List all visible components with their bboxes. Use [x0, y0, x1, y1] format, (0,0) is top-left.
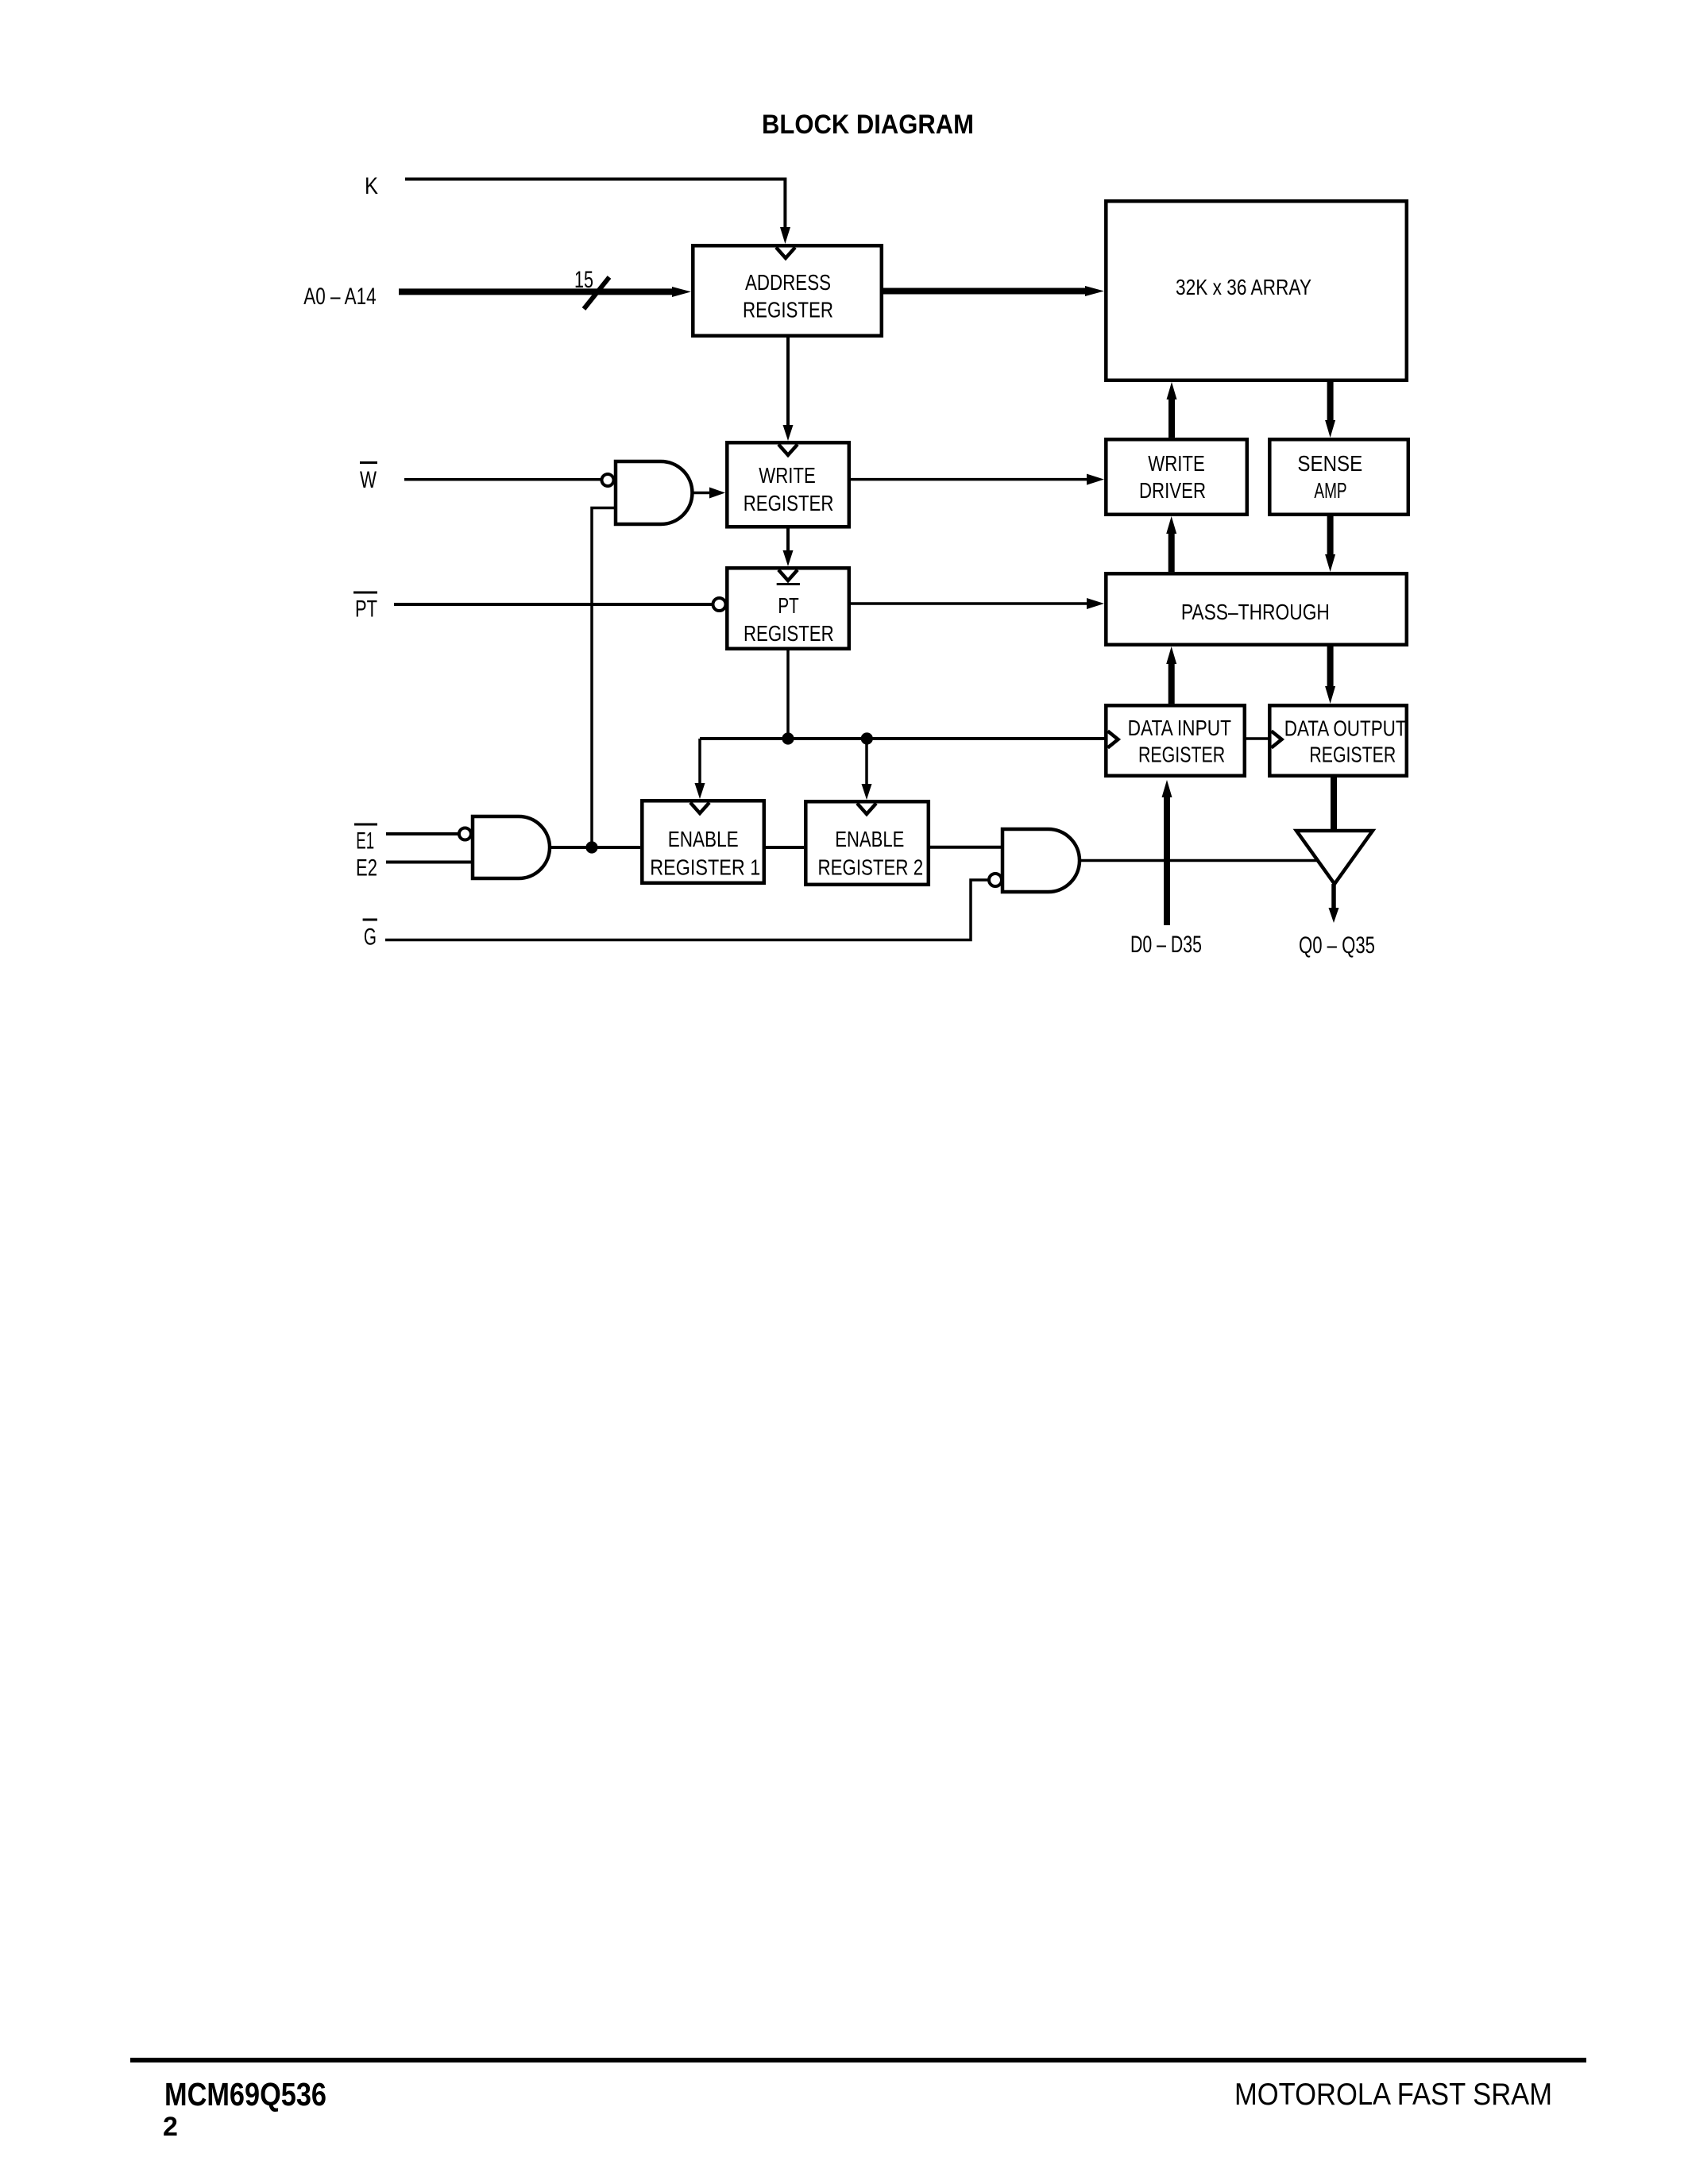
svg-text:E1: E1 [356, 828, 374, 855]
svg-text:2: 2 [163, 2112, 178, 2142]
svg-text:DATA INPUT: DATA INPUT [1128, 716, 1231, 740]
svg-text:Q0 – Q35: Q0 – Q35 [1299, 932, 1375, 959]
svg-text:BLOCK DIAGRAM: BLOCK DIAGRAM [762, 110, 974, 140]
svg-text:REGISTER 2: REGISTER 2 [818, 855, 924, 880]
svg-text:REGISTER: REGISTER [744, 491, 834, 515]
svg-text:REGISTER: REGISTER [743, 297, 833, 322]
svg-text:D0 – D35: D0 – D35 [1130, 932, 1202, 958]
svg-text:E2: E2 [356, 855, 377, 882]
svg-text:AMP: AMP [1314, 478, 1346, 503]
svg-text:REGISTER 1: REGISTER 1 [650, 855, 760, 880]
svg-text:MOTOROLA FAST SRAM: MOTOROLA FAST SRAM [1234, 2078, 1552, 2112]
svg-text:REGISTER: REGISTER [744, 621, 834, 646]
svg-text:WRITE: WRITE [1148, 451, 1205, 476]
svg-text:A0 – A14: A0 – A14 [303, 284, 376, 310]
svg-text:15: 15 [574, 267, 593, 293]
svg-text:MCM69Q536: MCM69Q536 [164, 2076, 326, 2113]
svg-text:ENABLE: ENABLE [668, 827, 739, 851]
svg-text:ADDRESS: ADDRESS [745, 270, 831, 295]
svg-text:W: W [360, 467, 377, 493]
svg-text:DRIVER: DRIVER [1139, 478, 1206, 503]
svg-text:PT: PT [778, 593, 798, 618]
svg-text:PASS–THROUGH: PASS–THROUGH [1181, 600, 1330, 624]
svg-text:SENSE: SENSE [1297, 451, 1362, 476]
svg-text:DATA OUTPUT: DATA OUTPUT [1284, 716, 1407, 740]
svg-text:PT: PT [355, 596, 377, 623]
svg-text:K: K [365, 173, 378, 199]
svg-text:ENABLE: ENABLE [835, 827, 904, 851]
svg-text:32K x 36 ARRAY: 32K x 36 ARRAY [1176, 275, 1311, 299]
svg-text:WRITE: WRITE [759, 463, 816, 488]
svg-text:G: G [364, 924, 377, 951]
svg-text:REGISTER: REGISTER [1138, 742, 1225, 766]
svg-text:REGISTER: REGISTER [1309, 742, 1396, 766]
